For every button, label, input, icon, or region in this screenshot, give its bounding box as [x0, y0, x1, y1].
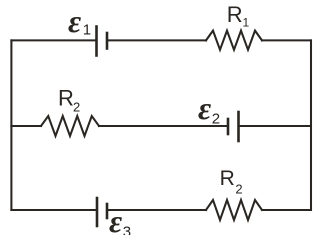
- wire bottom right segment: [262, 209, 311, 211]
- wire bottom middle segment: [107, 209, 206, 211]
- svg-text:R: R: [220, 167, 235, 190]
- svg-text:ε: ε: [198, 90, 211, 126]
- battery E3: [97, 198, 107, 226]
- wire top right segment: [262, 39, 311, 41]
- wire top middle segment: [107, 39, 206, 41]
- svg-text:R: R: [58, 85, 74, 110]
- wire bottom left segment: [11, 209, 97, 211]
- wire right vertical: [310, 40, 312, 210]
- resistor R1: [206, 31, 262, 50]
- svg-text:3: 3: [123, 223, 131, 235]
- resistor R2 middle: [41, 116, 99, 136]
- svg-text:2: 2: [212, 110, 220, 127]
- svg-text:1: 1: [83, 21, 91, 38]
- resistor R2 bottom: [206, 200, 262, 220]
- battery E1: [97, 27, 108, 56]
- svg-text:ε: ε: [109, 203, 122, 235]
- svg-text:2: 2: [73, 100, 80, 115]
- svg-text:ε: ε: [68, 3, 81, 39]
- wire left vertical: [10, 40, 12, 210]
- wire middle left segment: [11, 125, 41, 127]
- wire middle right segment: [239, 125, 312, 127]
- svg-text:2: 2: [235, 182, 242, 197]
- wire middle segment: [99, 125, 228, 127]
- battery E2: [228, 112, 239, 141]
- svg-text:R: R: [227, 2, 243, 27]
- wire top left segment: [11, 39, 96, 41]
- svg-text:1: 1: [243, 16, 250, 30]
